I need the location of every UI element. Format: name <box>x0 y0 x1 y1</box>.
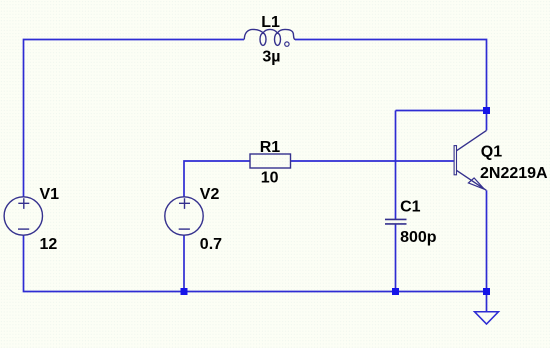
node junction emitter bottom <box>483 288 490 295</box>
wire V2 top to R1 left <box>184 161 250 197</box>
C1 bottom plate <box>385 223 407 225</box>
V2 minus mark <box>179 228 190 230</box>
ground <box>475 312 499 324</box>
Q1 base bar <box>454 146 456 175</box>
wire R1 right to Q1 base <box>291 160 454 162</box>
wire collector node horizontal <box>396 110 487 112</box>
V2 plus mark <box>179 198 190 209</box>
svg-text:V1: V1 <box>40 186 60 203</box>
transistor Q1 <box>454 130 486 190</box>
svg-text:0.7: 0.7 <box>200 236 222 253</box>
svg-text:L1: L1 <box>261 14 280 31</box>
resistor R1 <box>250 154 291 168</box>
svg-text:2N2219A: 2N2219A <box>480 165 548 182</box>
L1 coil arc 3 <box>277 29 295 39</box>
wire Q1 emitter to ground <box>486 190 488 311</box>
svg-text:800p: 800p <box>400 229 437 246</box>
C1 top plate <box>385 218 407 220</box>
svg-text:C1: C1 <box>400 199 421 216</box>
svg-text:3µ: 3µ <box>262 48 280 65</box>
capacitor C1 <box>385 219 407 224</box>
voltage source V2 <box>165 197 203 235</box>
V1 body circle <box>4 197 42 235</box>
svg-text:Q1: Q1 <box>481 143 502 160</box>
L1 coil loop 1 <box>260 33 266 45</box>
svg-text:12: 12 <box>40 236 58 253</box>
svg-text:V2: V2 <box>200 186 220 203</box>
V1 minus mark <box>18 228 29 230</box>
L1 coil loop 2 <box>275 33 281 45</box>
svg-text:R1: R1 <box>260 139 281 156</box>
wire C1 bottom to bus <box>395 224 397 292</box>
V1 plus mark <box>18 198 29 209</box>
wire V1 bottom to ground bus <box>24 236 487 292</box>
node junction V2 bottom <box>181 288 188 295</box>
svg-text:10: 10 <box>261 169 279 186</box>
Q1 emitter lead <box>456 170 486 190</box>
Q1 collector lead <box>456 130 486 150</box>
L1 coil arc 1 <box>244 29 263 39</box>
L1 coil arc 2 <box>263 29 278 33</box>
wire V1 top to L1 left <box>24 40 245 197</box>
wire V2 bottom to bus <box>183 236 185 292</box>
L1 phase dot <box>285 42 289 46</box>
node junction collector <box>483 107 490 114</box>
V2 body circle <box>165 197 203 235</box>
wire collector node down to C1 top <box>395 111 397 220</box>
Q1 emitter arrow <box>468 178 484 189</box>
wire L1 right to collector node <box>295 40 487 131</box>
inductor L1 <box>244 29 295 46</box>
node junction C1 bottom <box>392 288 399 295</box>
voltage source V1 <box>4 197 42 235</box>
